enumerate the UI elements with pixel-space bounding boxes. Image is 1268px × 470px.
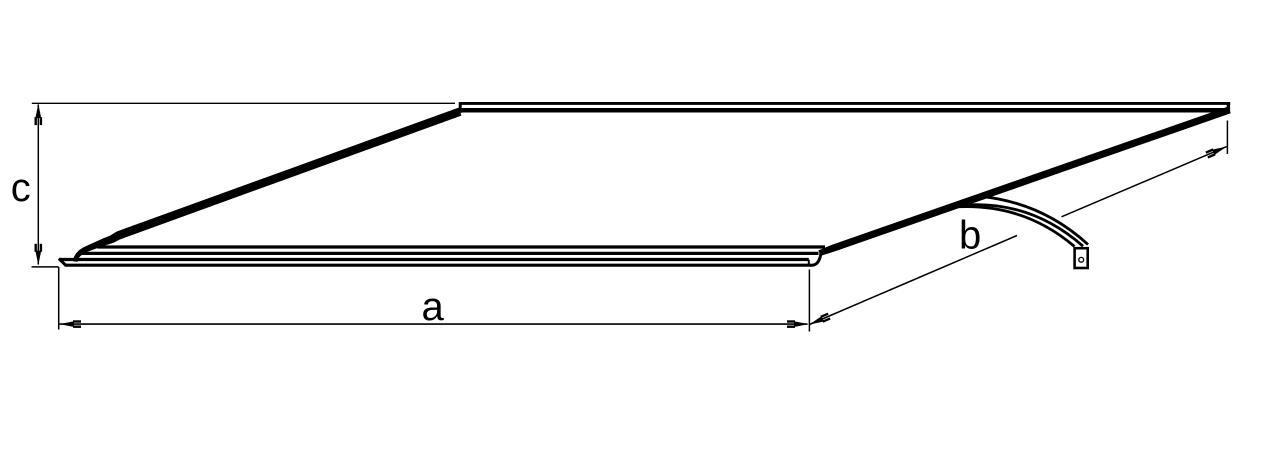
front profile line P4 [65, 264, 811, 267]
dimension c line [37, 105, 39, 265]
dimension b line upper segment [1062, 147, 1227, 217]
front profile line P1 [98, 245, 826, 248]
front profile line P3 [60, 258, 809, 261]
dimension a arrow left [60, 320, 82, 328]
bracket foot plate [1075, 248, 1088, 268]
extension line a-b right [808, 270, 810, 332]
canopy back edge thick lower line [461, 108, 1230, 113]
extension line c bottom [32, 266, 59, 268]
canopy left edge [73, 108, 461, 262]
canopy back edge thin top line [460, 102, 1231, 105]
dimension c arrow bottom [35, 244, 43, 266]
dimension b arrow lower [808, 313, 831, 328]
extension line b top right [1226, 121, 1228, 155]
dimension b line lower segment [809, 236, 1017, 325]
dimension c arrow top [35, 104, 43, 126]
svg-text:a: a [422, 285, 445, 329]
canopy back edge right cap [1227, 102, 1230, 113]
extension line a left [58, 267, 60, 330]
bracket middle arc [950, 205, 1083, 247]
bracket foot hole [1079, 257, 1084, 262]
bracket top arc [980, 196, 1088, 244]
bracket bottom arc [950, 207, 1075, 247]
extension line c top [32, 102, 455, 104]
front profile left chamfer [59, 259, 66, 266]
front profile line P2 [78, 252, 819, 255]
svg-text:b: b [959, 214, 981, 258]
canopy back edge left cap [459, 102, 462, 113]
svg-text:c: c [11, 166, 31, 210]
front profile right step [808, 260, 810, 265]
dimension a line [60, 323, 808, 325]
bracket white fill [950, 196, 1088, 246]
front profile right hook [810, 253, 821, 265]
dimension b arrow upper [1205, 143, 1228, 158]
canopy right edge [818, 107, 1230, 257]
dimension a arrow right [787, 320, 809, 328]
